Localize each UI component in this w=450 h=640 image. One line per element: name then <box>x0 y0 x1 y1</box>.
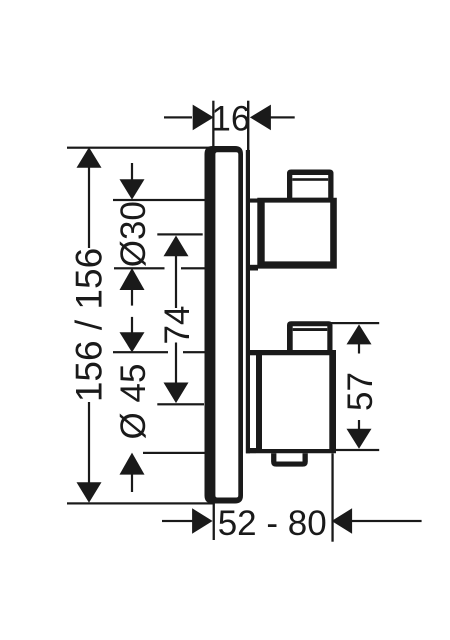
svg-text:16: 16 <box>211 100 250 139</box>
svg-text:156 / 156: 156 / 156 <box>69 248 110 402</box>
svg-text:Ø30: Ø30 <box>114 201 153 267</box>
svg-text:52 - 80: 52 - 80 <box>218 504 327 543</box>
svg-text:Ø 45: Ø 45 <box>114 364 153 440</box>
svg-text:57: 57 <box>341 372 380 411</box>
svg-text:74: 74 <box>158 306 197 345</box>
